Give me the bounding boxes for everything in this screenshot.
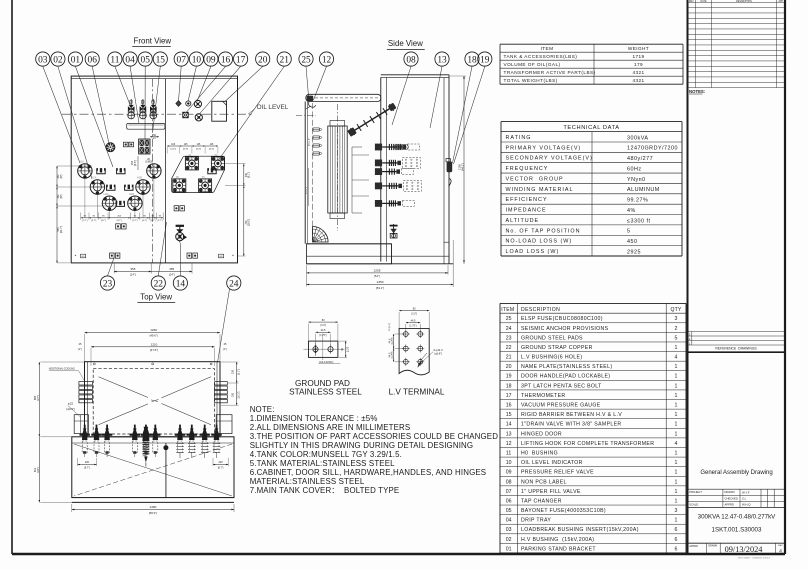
- svg-text:1: 1: [675, 364, 678, 370]
- svg-text:24: 24: [506, 326, 512, 332]
- svg-text:01: 01: [71, 55, 81, 65]
- svg-text:44.5: 44.5: [388, 352, 391, 357]
- svg-text:REV: REV: [778, 545, 783, 547]
- svg-text:L.V TERMINAL: L.V TERMINAL: [389, 388, 445, 397]
- svg-text:SEISMIC ANCHOR PROVISIONS: SEISMIC ANCHOR PROVISIONS: [521, 326, 609, 332]
- svg-text:ITEM: ITEM: [501, 307, 514, 313]
- svg-text:TOTAL WEIGHT(LBS): TOTAL WEIGHT(LBS): [504, 78, 558, 83]
- svg-text:[3.7"]: [3.7"]: [133, 220, 138, 222]
- svg-text:RATING: RATING: [506, 135, 532, 141]
- svg-text:LOAD LOSS (W): LOAD LOSS (W): [506, 249, 560, 255]
- svg-text:DOOR HANDLE(PAD LOCKABLE): DOOR HANDLE(PAD LOCKABLE): [521, 374, 610, 380]
- svg-text:22: 22: [506, 345, 512, 351]
- svg-text:450: 450: [627, 239, 638, 245]
- svg-text:PRIMARY VOLTAGE(V): PRIMARY VOLTAGE(V): [506, 145, 582, 151]
- svg-text:07: 07: [177, 55, 187, 65]
- svg-text:[21.7"]: [21.7"]: [60, 226, 63, 233]
- svg-text:23: 23: [506, 335, 512, 341]
- svg-text:20: 20: [258, 55, 268, 65]
- svg-text:[3.7"]: [3.7"]: [151, 220, 156, 222]
- svg-text:1: 1: [675, 393, 678, 399]
- svg-text:03: 03: [506, 527, 512, 533]
- svg-text:GROUND STEEL PADS: GROUND STEEL PADS: [521, 335, 583, 341]
- svg-text:17: 17: [506, 393, 512, 399]
- svg-text:20: 20: [506, 364, 512, 370]
- svg-text:[3.7"]: [3.7"]: [83, 220, 88, 222]
- svg-text:60Hz: 60Hz: [627, 166, 642, 172]
- svg-text:1.DIMENSION TOLERANCE : ±5%: 1.DIMENSION TOLERANCE : ±5%: [250, 414, 378, 423]
- svg-text:Top View: Top View: [140, 293, 172, 302]
- svg-text:W.H.Q: W.H.Q: [742, 503, 751, 507]
- svg-text:NAME PLATE(STAINLESS STEEL): NAME PLATE(STAINLESS STEEL): [521, 364, 612, 370]
- svg-text:4: 4: [675, 355, 678, 361]
- svg-text:04: 04: [506, 518, 512, 524]
- svg-text:179: 179: [634, 62, 643, 67]
- svg-text:6: 6: [675, 537, 678, 543]
- svg-text:GROUND STRAP COPPER: GROUND STRAP COPPER: [521, 345, 593, 351]
- svg-text:1: 1: [675, 345, 678, 351]
- svg-text:VECTOR GROUP: VECTOR GROUP: [506, 176, 564, 182]
- svg-text:13: 13: [437, 55, 447, 65]
- svg-text:1"DRAIN VALVE WITH 3/8" SAMPLE: 1"DRAIN VALVE WITH 3/8" SAMPLER: [521, 422, 622, 428]
- svg-text:13: 13: [506, 431, 512, 437]
- svg-text:6.CABINET, DOOR SILL, HARDWARE: 6.CABINET, DOOR SILL, HARDWARE,HANDLES, …: [250, 468, 487, 477]
- svg-text:1350: 1350: [377, 280, 384, 284]
- svg-text:[1"]: [1"]: [78, 348, 82, 351]
- svg-text:12: 12: [506, 441, 512, 447]
- svg-text:1: 1: [675, 518, 678, 524]
- svg-text:3.THE POSITION OF PART ACCESSO: 3.THE POSITION OF PART ACCESSORIES COULD…: [250, 432, 499, 441]
- svg-text:ITEM: ITEM: [541, 46, 554, 51]
- svg-text:REFERENCE DRAWINGS: REFERENCE DRAWINGS: [715, 347, 757, 351]
- svg-text:4321: 4321: [632, 70, 644, 75]
- svg-text:TRANSFORMER ACTIVE PART(LBS): TRANSFORMER ACTIVE PART(LBS): [504, 70, 596, 75]
- svg-text:2: 2: [675, 326, 678, 332]
- svg-text:ALTITUDE: ALTITUDE: [506, 218, 540, 224]
- svg-text:1: 1: [675, 479, 678, 485]
- svg-text:09: 09: [506, 470, 512, 476]
- svg-text:FREQUENCY: FREQUENCY: [506, 166, 549, 172]
- svg-text:APPRD: APPRD: [689, 545, 698, 548]
- svg-text:02: 02: [53, 55, 63, 65]
- svg-text:GROUND PAD: GROUND PAD: [295, 379, 350, 388]
- svg-text:H2A: H2A: [91, 176, 96, 180]
- svg-text:1260: 1260: [150, 328, 157, 332]
- svg-text:IMPEDANCE: IMPEDANCE: [506, 208, 547, 214]
- svg-text:SCALE: SCALE: [689, 502, 698, 506]
- svg-text:300kVA: 300kVA: [627, 135, 648, 141]
- svg-text:25: 25: [506, 316, 512, 322]
- svg-text:2925: 2925: [627, 249, 641, 255]
- svg-text:H1A: H1A: [79, 160, 84, 164]
- svg-text:44.5: 44.5: [411, 319, 416, 322]
- svg-text:21: 21: [506, 355, 512, 361]
- svg-text:*: *: [232, 254, 234, 259]
- svg-text:355: 355: [130, 267, 135, 271]
- svg-text:H3A: H3A: [103, 192, 108, 196]
- svg-text:APP: APP: [778, 0, 783, 3]
- svg-text:08: 08: [406, 55, 416, 65]
- svg-text:16: 16: [221, 55, 231, 65]
- svg-text:NOTES:: NOTES:: [689, 89, 706, 94]
- svg-text:SECONDARY VOLTAGE(V): SECONDARY VOLTAGE(V): [506, 156, 593, 162]
- svg-text:General Assembly Drawing: General Assembly Drawing: [700, 470, 772, 476]
- svg-text:YNyn0: YNyn0: [627, 177, 646, 183]
- svg-text:1: 1: [675, 460, 678, 466]
- svg-text:BAYONET FUSE(4000353C10B): BAYONET FUSE(4000353C10B): [521, 508, 606, 514]
- svg-text:[3.3"]: [3.3"]: [411, 312, 417, 315]
- svg-text:4: 4: [779, 549, 782, 555]
- svg-text:H1B: H1B: [148, 160, 153, 164]
- svg-text:1: 1: [675, 431, 678, 437]
- svg-text:[44.1"]: [44.1"]: [461, 163, 465, 171]
- svg-text:19: 19: [480, 55, 490, 65]
- svg-text:[4.3"]: [4.3"]: [183, 148, 188, 150]
- svg-text:[1"]: [1"]: [223, 348, 227, 351]
- svg-text:17: 17: [236, 55, 246, 65]
- svg-text:REV: REV: [689, 1, 694, 3]
- svg-text:DRAWN: DRAWN: [708, 545, 717, 548]
- svg-text:220: 220: [219, 461, 224, 464]
- svg-text:[3.7"]: [3.7"]: [101, 220, 106, 222]
- svg-text:[φ0.6"]: [φ0.6"]: [435, 352, 443, 355]
- svg-text:SLIGHTLY IN THIS DRAWING DURIN: SLIGHTLY IN THIS DRAWING DURING DETAIL D…: [250, 441, 474, 450]
- svg-text:[6"]: [6"]: [60, 174, 63, 178]
- svg-text:44.5: 44.5: [388, 338, 391, 343]
- svg-text:W.Y.F: W.Y.F: [742, 491, 750, 495]
- svg-text:PARKING STAND BRACKET: PARKING STAND BRACKET: [521, 546, 596, 552]
- svg-text:[3.7"]: [3.7"]: [158, 220, 163, 222]
- svg-text:24: 24: [229, 279, 239, 289]
- svg-text:25: 25: [301, 55, 311, 65]
- svg-text:[1.75"]: [1.75"]: [392, 337, 394, 344]
- svg-text:WEIGHT: WEIGHT: [628, 46, 649, 51]
- svg-text:[3.3"]: [3.3"]: [320, 324, 326, 327]
- svg-text:[2']: [2']: [153, 137, 157, 140]
- svg-text:3PT LATCH PENTA SEC BOLT: 3PT LATCH PENTA SEC BOLT: [521, 383, 602, 389]
- svg-text:230: 230: [232, 369, 235, 374]
- svg-text:06: 06: [88, 55, 98, 65]
- svg-text:6-φ14.3: 6-φ14.3: [434, 348, 444, 352]
- svg-text:02: 02: [506, 537, 512, 543]
- svg-text:14: 14: [176, 279, 186, 289]
- svg-text:09/13/2024: 09/13/2024: [725, 545, 764, 554]
- svg-text:44.5: 44.5: [321, 329, 326, 332]
- svg-text:1: 1: [675, 498, 678, 504]
- svg-text:APPRD: APPRD: [725, 502, 734, 506]
- svg-text:TECHNICAL DATA: TECHNICAL DATA: [563, 125, 619, 131]
- svg-text:TAP CHANGER: TAP CHANGER: [521, 498, 562, 504]
- svg-text:HINGED DOOR: HINGED DOOR: [521, 431, 562, 437]
- svg-text:TANK & ACCESSORIES(LBS): TANK & ACCESSORIES(LBS): [504, 54, 578, 59]
- svg-text:12: 12: [322, 55, 332, 65]
- svg-text:05: 05: [506, 508, 512, 514]
- svg-text:36 [1.4"]: 36 [1.4"]: [389, 323, 391, 331]
- svg-text:15: 15: [506, 412, 512, 418]
- svg-text:[8.7"]: [8.7"]: [218, 467, 224, 470]
- svg-text:1: 1: [675, 412, 678, 418]
- svg-text:01: 01: [506, 546, 512, 552]
- svg-text:OIL LEVEL: OIL LEVEL: [257, 104, 289, 111]
- svg-text:2.ALL DIMENSIONS ARE IN MILLIM: 2.ALL DIMENSIONS ARE IN MILLIMETERS: [250, 423, 411, 432]
- svg-text:99.27%: 99.27%: [627, 198, 648, 204]
- svg-text:16: 16: [506, 403, 512, 409]
- svg-text:4.TANK COLOR:MUNSELL 7GY 3.29/: 4.TANK COLOR:MUNSELL 7GY 3.29/1.5.: [250, 450, 402, 459]
- svg-text:14: 14: [506, 422, 512, 428]
- svg-text:03: 03: [38, 55, 48, 65]
- svg-text:VACUUM PRESSURE GAUGE: VACUUM PRESSURE GAUGE: [521, 403, 601, 409]
- svg-text:[4.3"]: [4.3"]: [209, 148, 214, 150]
- svg-text:3: 3: [675, 508, 678, 514]
- svg-text:21: 21: [280, 55, 290, 65]
- svg-text:(1/2-13UNC): (1/2-13UNC): [319, 360, 334, 364]
- svg-text:4321: 4321: [632, 78, 644, 83]
- svg-text:11: 11: [506, 450, 511, 456]
- svg-text:NON PCB LABEL: NON PCB LABEL: [521, 479, 567, 485]
- svg-text:RIGID BARRIER BETWEEN H.V & L.: RIGID BARRIER BETWEEN H.V & L.V: [521, 412, 622, 418]
- svg-text:Z.L: Z.L: [742, 497, 747, 501]
- svg-text:7.MAIN TANK COVER： BOLTED TYP: 7.MAIN TANK COVER： BOLTED TYPE: [250, 486, 400, 495]
- svg-text:18: 18: [467, 55, 477, 65]
- svg-text:1: 1: [675, 403, 678, 409]
- svg-text:[4.3"]: [4.3"]: [196, 148, 201, 150]
- svg-text:22: 22: [154, 279, 164, 289]
- svg-text:08: 08: [506, 479, 512, 485]
- svg-text:480y/277: 480y/277: [627, 156, 653, 162]
- svg-text:1719: 1719: [632, 54, 644, 59]
- svg-text:NEW SMART · DRAWING S30003: NEW SMART · DRAWING S30003: [738, 556, 771, 559]
- svg-text:DRAWN: DRAWN: [725, 490, 735, 494]
- svg-text:WINDING MATERIAL: WINDING MATERIAL: [506, 187, 574, 193]
- svg-text:12470GRDY/7200: 12470GRDY/7200: [627, 146, 678, 152]
- svg-text:1: 1: [675, 422, 678, 428]
- svg-text:[3.7"]: [3.7"]: [142, 220, 147, 222]
- svg-text:[10.2"]: [10.2"]: [239, 391, 241, 398]
- svg-text:≤3300 ft: ≤3300 ft: [627, 218, 650, 224]
- svg-text:H2B: H2B: [137, 176, 142, 180]
- svg-text:355: 355: [169, 267, 174, 271]
- svg-text:DRIP TRAY: DRIP TRAY: [521, 518, 551, 524]
- svg-text:[1.75"]: [1.75"]: [410, 324, 417, 327]
- svg-text:ALUMINUM: ALUMINUM: [627, 187, 660, 193]
- svg-text:DATE: DATE: [701, 0, 707, 3]
- svg-text:CHECKED: CHECKED: [725, 496, 738, 500]
- svg-text:1: 1: [675, 450, 678, 456]
- svg-text:[3.7"]: [3.7"]: [91, 220, 96, 222]
- svg-text:220: 220: [85, 461, 90, 464]
- svg-text:5: 5: [675, 335, 678, 341]
- svg-text:Side View: Side View: [388, 39, 423, 48]
- svg-text:1SKT.001.S30003: 1SKT.001.S30003: [712, 527, 762, 534]
- svg-text:10: 10: [192, 55, 202, 65]
- svg-text:5: 5: [627, 229, 631, 235]
- svg-text:5.TANK MATERIAL:STAINLESS STEE: 5.TANK MATERIAL:STAINLESS STEEL: [250, 459, 395, 468]
- svg-text:04: 04: [125, 55, 135, 65]
- svg-text:[14"]: [14"]: [130, 273, 136, 277]
- svg-text:QTY: QTY: [670, 307, 681, 313]
- svg-text:[49.6"]: [49.6"]: [150, 334, 158, 338]
- svg-text:1" UPPER FILL VALVE: 1" UPPER FILL VALVE: [521, 489, 581, 495]
- svg-text:1: 1: [675, 383, 678, 389]
- svg-text:L.V BUSHING(6 HOLE): L.V BUSHING(6 HOLE): [521, 355, 582, 361]
- svg-text:1: 1: [675, 374, 678, 380]
- svg-text:4: 4: [675, 441, 678, 447]
- svg-text:330: 330: [232, 392, 235, 397]
- svg-text:1210: 1210: [151, 342, 158, 346]
- svg-text:ADDITIONAL COOLING: ADDITIONAL COOLING: [49, 368, 75, 371]
- svg-text:[58.3"]: [58.3"]: [149, 511, 157, 515]
- svg-text:DESCRIPTION: DESCRIPTION: [521, 307, 560, 313]
- svg-text:THERMOMETER: THERMOMETER: [521, 393, 565, 399]
- svg-text:15: 15: [156, 55, 166, 65]
- svg-text:[8.7"]: [8.7"]: [84, 467, 90, 470]
- svg-text:[53.1"]: [53.1"]: [376, 286, 384, 290]
- svg-text:18: 18: [506, 383, 512, 389]
- svg-text:19: 19: [506, 374, 512, 380]
- svg-text:[9.1"]: [9.1"]: [239, 369, 241, 375]
- svg-text:1: 1: [675, 470, 678, 476]
- svg-text:45=1.8": 45=1.8": [306, 186, 308, 194]
- svg-text:H.V BUSHING (15kV,200A): H.V BUSHING (15kV,200A): [521, 537, 594, 543]
- svg-text:6: 6: [675, 527, 678, 533]
- svg-text:10: 10: [506, 460, 512, 466]
- svg-text:OIL LEVEL INDICATOR: OIL LEVEL INDICATOR: [521, 460, 583, 466]
- svg-text:[14"]: [14"]: [169, 273, 175, 277]
- svg-text:[6.5"]: [6.5"]: [134, 160, 137, 166]
- svg-text:Front View: Front View: [134, 36, 172, 45]
- svg-text:φ22: φ22: [68, 402, 74, 406]
- svg-text:PRESSURE RELIEF VALVE: PRESSURE RELIEF VALVE: [521, 470, 594, 476]
- svg-text:DESCRIPTION: DESCRIPTION: [736, 1, 752, 3]
- svg-text:NO-LOAD LOSS (W): NO-LOAD LOSS (W): [506, 239, 573, 245]
- svg-text:EFFICIENCY: EFFICIENCY: [506, 197, 548, 203]
- svg-text:23: 23: [103, 279, 113, 289]
- svg-text:*: *: [75, 254, 77, 259]
- svg-text:PROJECT: PROJECT: [689, 490, 702, 494]
- svg-text:No. OF TAP POSITION: No. OF TAP POSITION: [506, 228, 581, 234]
- svg-text:[6"]: [6"]: [60, 194, 63, 198]
- svg-text:07: 07: [506, 489, 512, 495]
- svg-text:[51"]: [51"]: [374, 274, 380, 278]
- svg-text:MATERIAL:STAINLESS STEEL: MATERIAL:STAINLESS STEEL: [250, 477, 365, 486]
- svg-text:VOLUME OF OIL(GAL): VOLUME OF OIL(GAL): [504, 62, 561, 67]
- svg-text:NOTE:: NOTE:: [250, 405, 275, 414]
- svg-text:09: 09: [206, 55, 216, 65]
- svg-text:[9.1"]: [9.1"]: [248, 172, 251, 178]
- svg-text:H0 BUSHING: H0 BUSHING: [521, 450, 558, 456]
- svg-text:[1.75"]: [1.75"]: [392, 351, 394, 358]
- svg-text:[24"]: [24"]: [37, 467, 40, 472]
- svg-text:1480: 1480: [149, 505, 156, 509]
- svg-text:300KVA 12.47-0.48/0.277kV: 300KVA 12.47-0.48/0.277kV: [698, 514, 777, 521]
- svg-text:[4.3"]: [4.3"]: [171, 148, 176, 150]
- svg-text:45=1.8": 45=1.8": [309, 138, 311, 146]
- svg-text:[27"]: [27"]: [37, 395, 40, 400]
- svg-text:[1.75"]: [1.75"]: [320, 334, 327, 337]
- svg-text:6: 6: [675, 546, 678, 552]
- svg-text:H3B: H3B: [129, 192, 134, 196]
- svg-text:1295: 1295: [374, 269, 381, 273]
- svg-text:[3.7"]: [3.7"]: [117, 220, 122, 222]
- svg-text:LIFTING HOOK FOR COMPLETE TRAN: LIFTING HOOK FOR COMPLETE TRANSFORMER: [521, 441, 654, 447]
- svg-text:4%: 4%: [627, 208, 636, 214]
- svg-text:[47.6"]: [47.6"]: [150, 348, 158, 352]
- svg-text:[28.3"]: [28.3"]: [248, 219, 251, 226]
- svg-text:1: 1: [675, 489, 678, 495]
- svg-text:ELSP FUSE(CBUC08080C100): ELSP FUSE(CBUC08080C100): [521, 316, 603, 322]
- svg-text:LOADBREAK BUSHING INSERT(15kV,: LOADBREAK BUSHING INSERT(15kV,200A): [521, 527, 639, 533]
- svg-text:05: 05: [141, 55, 151, 65]
- svg-text:11: 11: [110, 55, 119, 65]
- svg-text:STAINLESS STEEL: STAINLESS STEEL: [289, 388, 362, 397]
- svg-text:[1.2"]: [1.2"]: [348, 347, 350, 353]
- svg-text:06: 06: [506, 498, 512, 504]
- svg-text:3: 3: [675, 316, 678, 322]
